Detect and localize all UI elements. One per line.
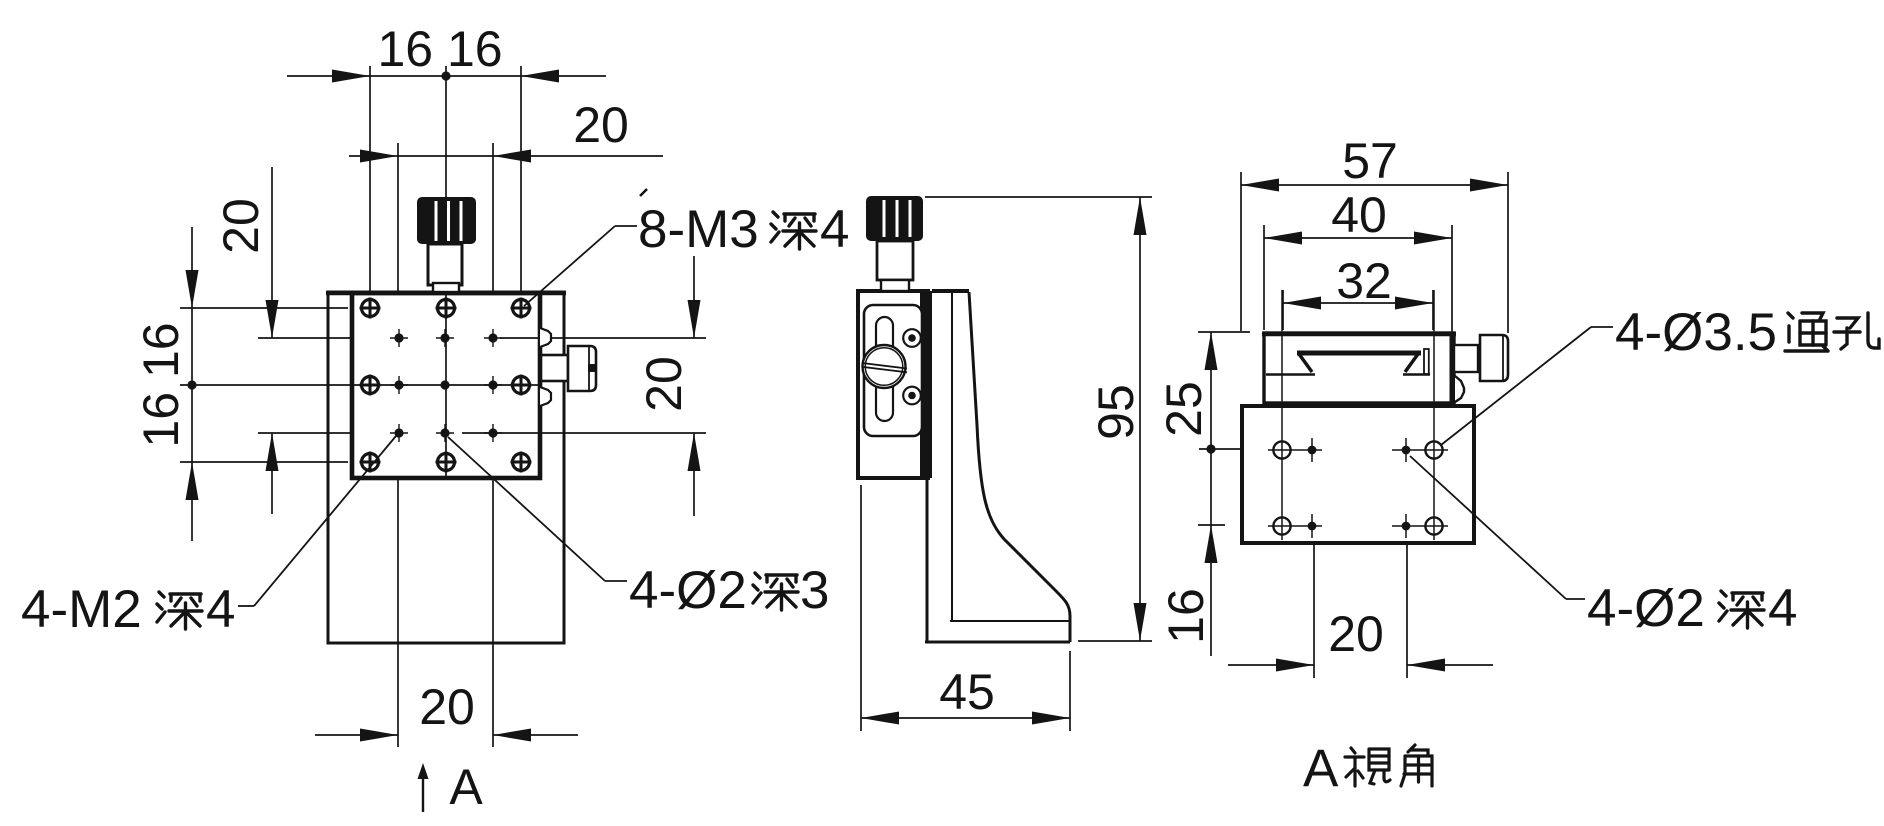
side knob notch: [588, 364, 596, 372]
row line y=385: [180, 384, 540, 386]
svg-text:95: 95: [1088, 384, 1144, 440]
dim 20 left: [271, 167, 273, 338]
clamp top edge: [1262, 332, 1456, 337]
dovetail right jaw: [1405, 354, 1418, 372]
svg-text:16 16: 16 16: [377, 21, 502, 77]
mid screw slot: [862, 363, 907, 369]
bracket left edge below block: [926, 478, 929, 642]
stray tick mark: [640, 189, 647, 196]
leader 4-dia2 deep3: [605, 580, 627, 582]
4 small holes dia2: [1308, 446, 1411, 531]
dim 57: [1240, 172, 1242, 331]
svg-text:45: 45: [939, 664, 995, 720]
hole row segments: [1268, 438, 1448, 538]
mid knob head: [866, 196, 923, 241]
svg-text:20: 20: [1328, 606, 1384, 662]
svg-text:20: 20: [213, 198, 269, 254]
plate top edge: [326, 291, 566, 296]
svg-text:4-Ø2: 4-Ø2: [1587, 579, 1705, 638]
mid small screw upper: [903, 329, 921, 347]
mid screw head circle: [863, 345, 906, 388]
svg-text:40: 40: [1331, 187, 1387, 243]
side lock nut upper: [540, 328, 551, 347]
dim 95: [925, 196, 1152, 198]
side knob head: [568, 346, 596, 391]
svg-text:A: A: [449, 759, 483, 815]
svg-text:4-M2: 4-M2: [21, 580, 142, 639]
svg-text:4: 4: [820, 200, 849, 259]
clamp-plate joint band: [1264, 402, 1454, 408]
mid knob stem step: [881, 280, 909, 291]
bracket right profile: [969, 292, 1070, 642]
M3 crosshair ticks: [360, 298, 532, 473]
leader 4-M2: [238, 605, 254, 607]
dim 32: [1282, 290, 1284, 330]
side knob stem: [541, 355, 568, 381]
svg-text:A: A: [1303, 739, 1339, 798]
svg-text:20: 20: [636, 356, 692, 412]
dim chain 25 / 16: [1198, 331, 1250, 333]
dim 20 right of left view: [693, 256, 695, 338]
svg-text:4-Ø2: 4-Ø2: [629, 561, 747, 620]
svg-text:3: 3: [800, 561, 829, 620]
top knob stem step: [433, 283, 459, 292]
hole column lines: [1281, 290, 1283, 540]
mid block right thick edge: [920, 291, 932, 478]
dim 20 bottom right view: [1313, 543, 1315, 678]
svg-text:4: 4: [206, 580, 235, 639]
extension line col 493: [492, 143, 494, 292]
svg-text:16: 16: [1158, 588, 1214, 644]
bracket foot top line: [950, 620, 1069, 622]
top knob head: [417, 197, 476, 244]
mid block: [858, 291, 928, 478]
bracket inner vertical line: [951, 293, 953, 621]
row line y=338: [258, 337, 352, 339]
leader 8-M3: [615, 225, 637, 227]
clamp body: [1264, 333, 1454, 403]
mid small screw lower: [903, 387, 921, 405]
dovetail top bar: [1297, 351, 1421, 356]
svg-text:16 16: 16 16: [133, 322, 189, 447]
row line y=462: [180, 461, 348, 463]
centerline column 446: [445, 66, 447, 477]
base plate: [1242, 406, 1474, 543]
extension line col 370: [369, 66, 371, 292]
dim 45: [860, 485, 862, 731]
right knob head inner line: [1502, 336, 1504, 380]
leader 4-dia3.5: [1591, 326, 1613, 328]
dim 40: [1263, 225, 1265, 330]
gib strip: [1424, 349, 1429, 374]
right knob head: [1480, 335, 1508, 381]
extension line col 521: [520, 66, 522, 292]
row line y=433: [258, 432, 352, 434]
svg-text:4: 4: [1768, 579, 1797, 638]
right knob stem: [1454, 345, 1478, 372]
top knob stem: [428, 244, 462, 285]
dim chain 16 16 left: [191, 227, 193, 541]
svg-text:25: 25: [1156, 381, 1212, 437]
dim 20 top: [349, 155, 663, 157]
svg-text:20: 20: [419, 679, 475, 735]
svg-text:32: 32: [1336, 253, 1392, 309]
body outline: [328, 292, 564, 643]
M3 screw holes (8-M3): [362, 300, 530, 471]
top plate square: [352, 293, 540, 478]
svg-text:57: 57: [1342, 133, 1398, 189]
dovetail left jaw: [1299, 354, 1312, 372]
4 big holes dia3.5: [1273, 441, 1442, 534]
knob grooves: [435, 201, 438, 241]
small holes 3x3 grid: [394, 333, 497, 437]
bracket foot bottom: [925, 641, 1070, 644]
mid knob stem: [877, 241, 913, 280]
mid knob grooves: [883, 200, 886, 237]
small hole ticks: [390, 329, 502, 442]
side knob head inner line: [588, 347, 590, 390]
dim chain 16 16 top: [287, 75, 606, 77]
bracket top edge: [932, 289, 969, 293]
view arrow A: [422, 772, 424, 812]
extension line col 398: [397, 143, 399, 292]
svg-text:20: 20: [573, 97, 629, 153]
svg-text:8-M3: 8-M3: [638, 200, 759, 259]
leader 4-dia2 deep4: [1410, 456, 1566, 599]
side lock nut lower: [540, 387, 551, 406]
right knob hex nut: [1455, 376, 1464, 402]
dim 20 bottom of left view: [315, 734, 398, 736]
mid slot stadium: [876, 317, 893, 421]
svg-text:4-Ø3.5: 4-Ø3.5: [1615, 303, 1777, 362]
row line y=308: [180, 307, 348, 309]
mid inner rounded plate: [864, 305, 922, 436]
clamp right inner line: [1450, 335, 1452, 402]
